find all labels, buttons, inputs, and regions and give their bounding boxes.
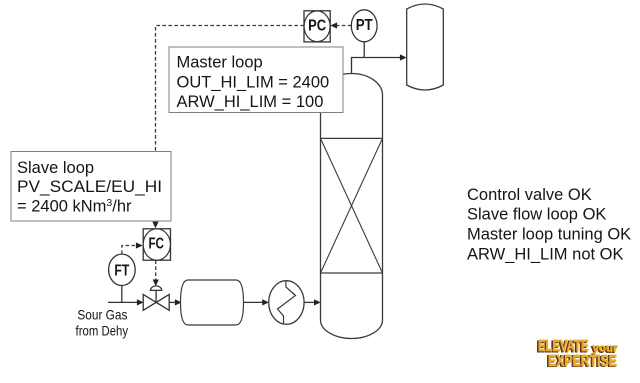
arrowhead into drum — [175, 299, 182, 305]
valve actuator stem — [155, 291, 157, 303]
svg-text:PT: PT — [356, 17, 373, 34]
arrowhead onto valve actuator — [153, 280, 159, 287]
arrowhead into PC right — [330, 22, 337, 28]
svg-text:PV_SCALE/EU_HI: PV_SCALE/EU_HI — [17, 178, 162, 196]
overhead vessel — [407, 4, 444, 90]
svg-text:EXPERTISE: EXPERTISE — [548, 353, 617, 370]
svg-text:Control valve OK: Control valve OK — [467, 186, 592, 204]
logo ELEVATE your EXPERTISE — [537, 338, 619, 370]
packing section bottom line — [321, 272, 383, 274]
FT stem wire — [121, 285, 123, 302]
signal line FC to valve (dashed) — [155, 260, 157, 280]
packing X cross — [321, 138, 383, 273]
pressure controller PC — [304, 11, 330, 42]
arrowhead into valve — [137, 299, 144, 305]
svg-text:FC: FC — [148, 236, 164, 253]
svg-text:Sour Gas: Sour Gas — [77, 306, 127, 322]
arrowhead into FC left — [136, 242, 143, 248]
pipe exchanger to column — [304, 301, 314, 303]
pressure transmitter PT — [351, 10, 377, 42]
heat exchanger coil zigzag — [278, 281, 296, 324]
arrowhead into overhead vessel — [400, 54, 407, 60]
arrowhead into FC top — [152, 222, 158, 229]
slave loop text box — [11, 152, 171, 222]
pipe sour gas inlet — [108, 301, 138, 303]
pipe drum to exchanger — [243, 301, 262, 303]
PT stem wire — [363, 42, 365, 58]
packing section top line — [321, 137, 383, 139]
absorber column — [321, 74, 383, 339]
signal line FT to FC (dashed) — [122, 246, 136, 254]
svg-text:Master loop: Master loop — [177, 53, 263, 71]
svg-text:from Dehy: from Dehy — [76, 322, 129, 338]
valve actuator diaphragm dome — [150, 286, 161, 291]
svg-text:OUT_HI_LIM = 2400: OUT_HI_LIM = 2400 — [177, 73, 330, 91]
svg-text:FT: FT — [114, 262, 129, 279]
control valve body — [143, 294, 169, 310]
heat exchanger — [269, 281, 304, 325]
knockout drum — [181, 280, 244, 325]
arrowhead into column — [314, 299, 321, 305]
svg-text:Master loop tuning OK: Master loop tuning OK — [467, 226, 631, 244]
svg-text:Slave loop: Slave loop — [17, 159, 94, 177]
pipe column overhead to vessel — [352, 58, 401, 75]
signal line PC to FC (dashed cascade setpoint) — [156, 26, 305, 222]
svg-text:Slave flow loop OK: Slave flow loop OK — [467, 206, 606, 224]
signal line PT to PC (dashed) — [337, 25, 352, 27]
master loop text box — [169, 47, 343, 113]
svg-text:PC: PC — [308, 17, 326, 34]
pipe valve to drum — [169, 301, 175, 303]
arrowhead into exchanger — [262, 299, 269, 305]
svg-text:ARW_HI_LIM not OK: ARW_HI_LIM not OK — [467, 245, 624, 263]
svg-text:ARW_HI_LIM = 100: ARW_HI_LIM = 100 — [177, 93, 324, 111]
flow transmitter FT — [109, 254, 136, 285]
svg-text:= 2400 kNm3/hr: = 2400 kNm3/hr — [17, 197, 132, 216]
flow controller FC — [143, 229, 170, 260]
